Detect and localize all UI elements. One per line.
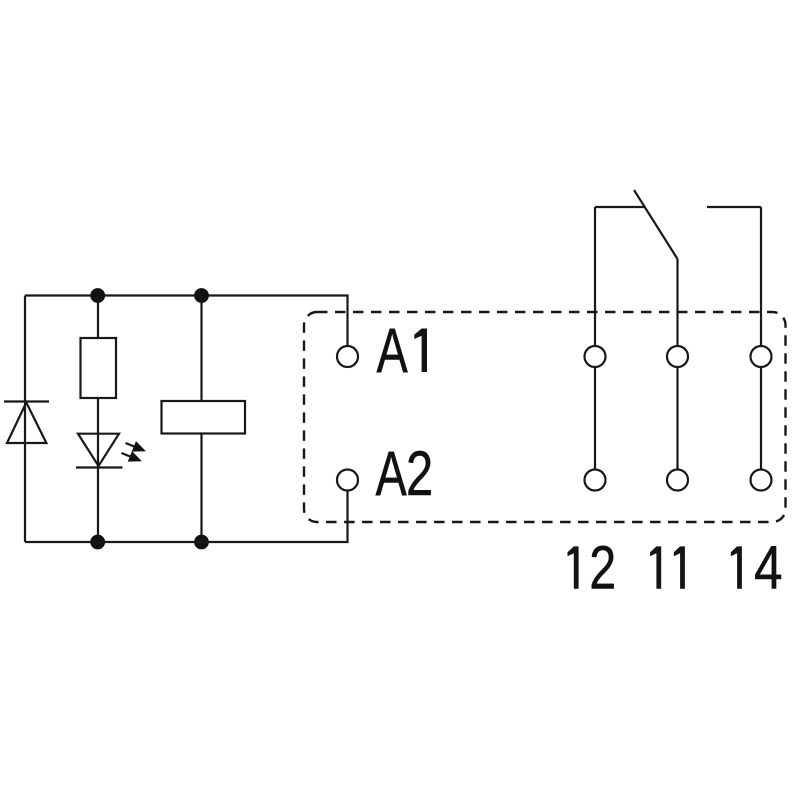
LED emission arrow 1 [123,438,148,457]
svg-text:4: 4 [754,534,783,602]
wire terminal 14 lead [760,207,762,346]
diode V1 cathode bar [4,400,49,402]
terminal 12 top circle [585,346,606,367]
switch blade [634,190,678,259]
label 11 digit 1 (first) [650,546,661,588]
svg-text:A: A [376,438,407,508]
LED emission arrow 2 [119,448,144,467]
wire terminal 11 lead [676,259,678,346]
wire coil to bottom rail [200,434,202,543]
terminal 12 bottom circle [585,470,606,491]
wire NO contact [707,206,761,208]
node junction dot bottom coil branch [194,535,209,550]
relay module outline (dashed) [304,312,786,522]
label A1 digit 1 [414,329,427,373]
svg-text:A: A [377,315,408,385]
svg-text:2: 2 [589,533,616,602]
label 11 digit 1 (second) [674,546,685,588]
node junction dot top resistor branch [90,288,105,303]
wire left branch (diode branch) [24,296,26,543]
diode V1 [7,403,46,444]
wire terminal 14 internal [760,367,762,470]
label 12 digit 1 [568,546,579,588]
terminal 14 top circle [751,346,772,367]
wire LED to bottom rail [97,468,99,543]
terminal 14 bottom circle [751,470,772,491]
wire resistor to LED [97,398,99,468]
wire NC contact [595,206,645,208]
LED D1 [78,434,119,466]
node junction dot top coil branch [194,288,209,303]
label 14 digit 1 [731,546,742,588]
resistor R1 [81,338,117,398]
terminal 11 bottom circle [667,470,688,491]
LED D1 cathode bar [76,466,123,468]
node junction dot bottom resistor branch [90,535,105,550]
wire top rail [25,296,348,347]
wire terminal 12 internal [594,367,596,470]
wire coil branch top [200,296,202,402]
svg-text:2: 2 [406,438,433,508]
terminal 11 top circle [667,346,688,367]
wire terminal 11 internal [676,367,678,470]
terminal A1 [337,346,358,367]
wire bottom rail [25,491,348,543]
wire resistor branch top [97,296,99,339]
terminal A2 [337,470,358,491]
relay coil K1 [162,401,246,434]
wire terminal 12 lead [594,207,596,346]
